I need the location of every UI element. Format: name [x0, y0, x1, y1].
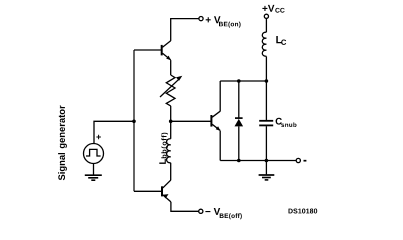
label -VBE(off) — [205, 208, 241, 219]
label minus at emitter terminal — [304, 160, 307, 162]
ground below generator — [85, 175, 102, 180]
variable resistor R1 — [160, 75, 180, 106]
wire rail to ground — [265, 161, 267, 175]
label +VBE(on) — [206, 16, 241, 27]
terminal -VBE(off) — [199, 209, 203, 213]
label Lc — [276, 36, 286, 45]
label Csnub — [276, 118, 297, 127]
transistor Q1 NPN (turn-on driver) — [162, 41, 171, 61]
node junction R1/base wire — [169, 120, 173, 124]
wire Lc to rail — [265, 56, 267, 81]
wire R1 to junction node — [170, 106, 172, 139]
inductor Lbb(off) — [167, 139, 171, 163]
wire bottom rail — [220, 160, 296, 162]
node diode/bottom rail — [237, 159, 241, 163]
node capacitor/bottom rail — [265, 159, 269, 163]
label Lbb(off) — [159, 133, 168, 164]
signal generator source V1 — [84, 144, 104, 164]
wire top rail — [220, 80, 266, 82]
wire inductor to Q2 collector — [170, 163, 172, 180]
wire Q2 emitter to terminal — [171, 202, 199, 211]
transistor Q2 PNP (turn-off driver) — [162, 180, 171, 202]
terminal +VBE(on) — [199, 17, 203, 21]
wire Q1 emitter down — [170, 60, 172, 75]
wire bus to Q1 base — [134, 49, 161, 51]
wire VCC to Lc — [265, 19, 267, 33]
node rail/Lc — [265, 79, 269, 83]
transistor Q3 power NPN — [211, 111, 220, 131]
wire Q3 collector to top rail — [219, 81, 221, 111]
terminal emitter output — [296, 158, 300, 162]
diode D1 freewheeling — [235, 81, 244, 161]
wire left bus vertical — [133, 50, 135, 191]
capacitor Csnub — [259, 81, 273, 161]
wire Q1 collector up and to terminal — [171, 19, 199, 41]
node rail/diode — [237, 79, 241, 83]
wire Q3 emitter down — [219, 131, 221, 161]
wire generator top to bus — [94, 121, 134, 143]
label Signal generator — [58, 106, 67, 181]
ground right — [259, 175, 275, 180]
wire junction to Q3 base — [171, 120, 211, 122]
label +VCC — [262, 5, 284, 13]
node junction bus/generator — [132, 120, 136, 124]
label DS10180 — [289, 209, 318, 214]
terminal +VCC — [264, 14, 268, 18]
wire bus to Q2 base — [134, 190, 161, 192]
label + polarity of source — [96, 135, 101, 140]
inductor Lc — [262, 32, 266, 56]
wire generator bottom — [93, 164, 95, 175]
